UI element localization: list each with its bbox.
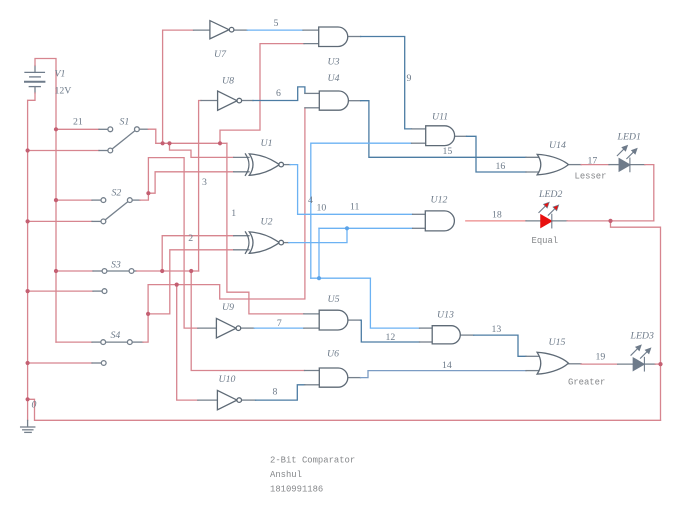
svg-text:13: 13	[492, 324, 502, 335]
wire S4 bottom	[28, 362, 92, 364]
svg-text:3: 3	[202, 177, 207, 188]
wire net12 U5 to U13 bottom	[348, 319, 361, 321]
wire S2 net to U9 input	[148, 158, 197, 329]
svg-text:1: 1	[231, 208, 236, 219]
wire net16 U11 to U14 bottom	[455, 135, 467, 137]
svg-text:Anshul: Anshul	[270, 470, 302, 480]
node net4 a	[345, 226, 349, 230]
node LED2 out	[608, 219, 612, 223]
wire S4 net to U10 input	[177, 285, 198, 401]
svg-text:U3: U3	[328, 57, 340, 68]
and-gate U12	[425, 211, 454, 231]
wire net6 U8 to U4	[242, 100, 253, 102]
node S3 row a	[160, 269, 164, 273]
switch S3	[102, 269, 134, 294]
wire net1 to U1 top input	[170, 143, 234, 157]
svg-text:U15: U15	[549, 337, 566, 348]
svg-text:9: 9	[407, 73, 412, 84]
wire net1 to U3 bottom input	[220, 44, 304, 144]
xnor-gate U1	[245, 154, 283, 175]
svg-text:V1: V1	[55, 69, 66, 80]
wire ground jog and bottom return	[28, 399, 661, 420]
xnor-gate U2	[245, 232, 283, 253]
and-gate U4	[319, 91, 348, 110]
node +bus S2	[54, 198, 58, 202]
svg-text:10: 10	[317, 203, 327, 214]
node row2 U10	[175, 283, 179, 287]
svg-text:14: 14	[442, 360, 452, 371]
wire right return to ground	[611, 221, 661, 420]
node 0bus S4	[26, 361, 30, 365]
svg-text:U1: U1	[261, 138, 273, 149]
node S4 riser	[146, 312, 150, 316]
node net1 U1	[167, 141, 171, 145]
wire S4 top	[56, 341, 92, 343]
or-gate U15	[537, 352, 568, 374]
svg-text:U7: U7	[214, 49, 227, 60]
ground	[21, 420, 35, 432]
svg-text:5: 5	[274, 18, 279, 29]
wire net15 U4 to U14 top	[348, 100, 360, 102]
svg-text:U9: U9	[222, 302, 234, 313]
and-gate U3	[319, 27, 348, 47]
wire net8 U10 to U6 bottom	[242, 399, 256, 401]
wire net17 U14 to LED1	[568, 164, 581, 166]
svg-text:2-Bit Comparator: 2-Bit Comparator	[270, 456, 355, 466]
switch S2	[101, 198, 132, 224]
wire S2 out (net A0)	[132, 199, 140, 201]
net1 bus horizontal y=143.3	[156, 142, 227, 144]
svg-text:U10: U10	[219, 374, 236, 385]
svg-text:21: 21	[73, 117, 83, 128]
LED3	[631, 345, 651, 371]
svg-text:8: 8	[273, 387, 278, 398]
wire net1 to U7 input	[163, 30, 194, 143]
wire S1 bottom	[28, 150, 99, 152]
wire S2 bottom	[28, 220, 92, 222]
svg-text:6: 6	[276, 88, 281, 99]
wire net5 U7 to U3	[234, 29, 247, 31]
0bus x=27.6	[27, 151, 29, 421]
wire net18 U12 to LED2	[466, 220, 526, 222]
svg-text:U5: U5	[328, 294, 340, 305]
wire LED1 out riser	[630, 164, 645, 166]
not-gate U7	[210, 21, 234, 39]
svg-text:16: 16	[496, 161, 506, 172]
wire S3 net to U6 top input	[191, 271, 304, 371]
battery V1	[25, 66, 44, 94]
node 0bus S3	[26, 289, 30, 293]
LED1	[617, 145, 637, 171]
wire S3 bottom	[28, 290, 93, 292]
wire S3 out row y=271	[134, 270, 137, 272]
svg-text:1810991186: 1810991186	[270, 485, 323, 495]
wire net4 drop	[318, 228, 320, 278]
switch S1	[108, 127, 139, 153]
svg-text:12V: 12V	[55, 86, 72, 97]
and-gate U13	[432, 326, 460, 344]
and-gate U5	[319, 310, 348, 330]
svg-text:S4: S4	[111, 330, 121, 341]
wire S4 net to U2 bottom input	[148, 250, 234, 314]
svg-text:LED2: LED2	[538, 189, 563, 200]
wire S3 top	[56, 270, 93, 272]
node +bus S1	[54, 127, 58, 131]
wire net13 U13 to U15 top	[460, 334, 473, 336]
svg-text:11: 11	[350, 202, 360, 213]
wire S3 net to U8 input (net 3)	[199, 101, 201, 272]
svg-text:U14: U14	[549, 140, 566, 151]
wire S4 net row2 to U4 bottom input	[148, 108, 305, 314]
svg-text:LED3: LED3	[630, 331, 655, 342]
wire net4 U2 out riser	[283, 242, 288, 244]
+bus x=56	[55, 129, 57, 342]
wire S2 net to U1 bottom input	[148, 172, 233, 193]
svg-text:Equal: Equal	[532, 236, 559, 246]
svg-text:U12: U12	[431, 195, 448, 206]
and-gate U11	[426, 126, 455, 146]
svg-text:7: 7	[277, 318, 282, 329]
svg-text:U13: U13	[437, 310, 454, 321]
wire net19 U15 to LED3	[569, 363, 582, 365]
wire battery bottom to 0bus	[28, 93, 35, 151]
svg-text:Lesser: Lesser	[575, 172, 607, 182]
wire net4 to U12 bottom	[319, 227, 413, 229]
node 0bus S1	[26, 148, 30, 152]
not-gate U8	[218, 91, 242, 110]
node net1 U3	[218, 141, 222, 145]
wire S1 out to net1 bus	[139, 128, 148, 130]
svg-text:U2: U2	[261, 217, 273, 228]
node S2 branch	[146, 191, 150, 195]
not-gate U9	[216, 318, 240, 338]
LED2	[539, 202, 559, 228]
wire net9 U3 to U11	[348, 36, 361, 38]
svg-text:S2: S2	[112, 188, 122, 199]
svg-text:4: 4	[308, 195, 313, 206]
and-gate U6	[319, 368, 348, 387]
svg-text:S1: S1	[120, 117, 130, 128]
wire net1 to U5 top input	[227, 143, 304, 314]
node 0bus ground	[26, 397, 30, 401]
svg-text:U11: U11	[432, 112, 448, 123]
svg-text:15: 15	[443, 146, 453, 157]
or-gate U14	[537, 154, 568, 174]
node 0bus S2	[26, 219, 30, 223]
wire net4 to U13 top	[370, 278, 419, 328]
svg-text:18: 18	[492, 210, 502, 221]
wire LED3 out	[645, 363, 656, 365]
wire S3 net to U2 top input (net 2)	[162, 236, 234, 271]
svg-text:17: 17	[588, 156, 598, 167]
switch S4	[101, 340, 132, 366]
wire net4 to U11 bottom	[311, 143, 412, 278]
svg-text:S3: S3	[111, 260, 121, 271]
node LED3 out	[658, 362, 662, 366]
node S3 row b	[189, 269, 193, 273]
svg-text:U8: U8	[222, 76, 234, 87]
not-gate U10	[217, 390, 241, 409]
wire net7 U9 to U5 bottom	[241, 327, 255, 329]
node net1 U7	[161, 141, 165, 145]
wire net14 U6 to U15 bottom	[348, 377, 361, 379]
svg-text:U6: U6	[327, 349, 339, 360]
svg-text:2: 2	[188, 233, 193, 244]
wire S1 top (net 21)	[56, 128, 99, 130]
wire net4 horizontal y=278.2	[311, 277, 371, 279]
wire S4 out riser	[132, 341, 143, 343]
wire LED2 out row	[552, 220, 567, 222]
wire S2 top	[56, 199, 92, 201]
wire net11 U1 to U12 top	[283, 164, 290, 166]
svg-text:12: 12	[386, 332, 396, 343]
wire battery top to +bus	[35, 59, 56, 130]
svg-text:0: 0	[32, 400, 37, 411]
svg-text:Greater: Greater	[568, 378, 605, 388]
svg-text:19: 19	[596, 352, 606, 363]
node net4 b	[317, 276, 321, 280]
node +bus S3	[54, 269, 58, 273]
svg-text:LED1: LED1	[617, 132, 641, 143]
svg-text:U4: U4	[328, 73, 340, 84]
